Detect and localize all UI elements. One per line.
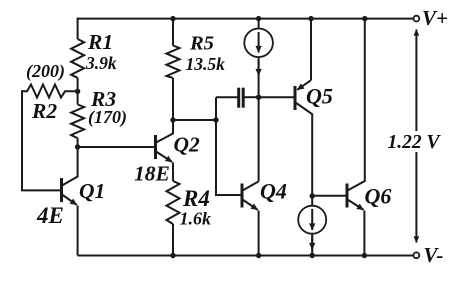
wire current source I1 top lead from rail	[258, 19, 260, 29]
capacitor C1	[239, 88, 244, 108]
transistor Q2	[156, 120, 174, 181]
node junction R3-Q1 collector-Q2 base	[75, 144, 80, 149]
node on Q4 base branch	[213, 117, 218, 122]
wire top supply rail	[78, 18, 414, 20]
terminal V+	[414, 16, 420, 22]
measurement arrow 1.22V lower	[415, 152, 417, 243]
svg-text:13.5k: 13.5k	[186, 54, 226, 74]
svg-text:R5: R5	[189, 33, 214, 55]
wire from Q2 collector node to compensation branch	[173, 119, 216, 121]
wire Q5 base from C1 node	[259, 96, 294, 98]
svg-text:1.6k: 1.6k	[180, 209, 212, 229]
resistor R5	[167, 46, 180, 79]
terminal V-	[414, 252, 420, 258]
svg-text:Q4: Q4	[260, 179, 287, 204]
svg-text:R1: R1	[87, 30, 113, 54]
svg-text:(170): (170)	[88, 107, 127, 128]
svg-text:Q6: Q6	[365, 184, 392, 209]
wire R5 top lead from rail	[172, 19, 174, 46]
wire Q2 base from R3 node	[78, 146, 154, 148]
svg-text:(200): (200)	[26, 61, 65, 82]
wire capacitor left lead	[216, 96, 238, 98]
svg-text:V-: V-	[424, 243, 444, 267]
current source I1	[244, 29, 273, 58]
resistor R2	[22, 85, 78, 98]
wire Q4 collector	[258, 97, 260, 181]
transistor Q5 (PNP)	[295, 19, 312, 196]
wire bottom supply rail	[78, 255, 414, 257]
node Q5 collector-Q6 base-I2 junction	[310, 193, 315, 198]
resistor R4	[167, 181, 180, 224]
wire compensation branch down to Q4 base	[216, 97, 241, 195]
transistor Q6	[347, 19, 365, 256]
resistor R1	[71, 39, 84, 78]
node I2 on bottom rail	[310, 253, 315, 258]
svg-text:R2: R2	[31, 99, 57, 123]
node junction R1-R2-R3	[75, 89, 80, 94]
wire capacitor right lead to Q4 collector node	[244, 96, 258, 98]
transistor Q4	[242, 181, 259, 255]
svg-text:3.9k: 3.9k	[85, 53, 117, 73]
resistor R3	[71, 105, 84, 139]
wire R1 bottom lead	[77, 78, 79, 92]
wire left feedback from R2 down to Q1 base	[22, 90, 60, 190]
wire I1 output with current arrow	[258, 57, 260, 97]
node Q4 collector-C1-Q5 base junction	[256, 95, 261, 100]
svg-text:Q5: Q5	[306, 84, 333, 109]
wire R5 bottom lead to Q2 collector node	[172, 78, 174, 120]
wire Q6 base from Q5 collector	[312, 195, 345, 197]
wire R1 top lead from rail	[77, 18, 79, 39]
svg-text:Q2: Q2	[174, 133, 201, 157]
svg-text:R4: R4	[182, 186, 210, 211]
node Q6 collector on top rail	[362, 16, 367, 21]
svg-text:Q1: Q1	[79, 179, 105, 203]
node R5 on top rail	[170, 16, 175, 21]
svg-text:18E: 18E	[134, 162, 170, 186]
node I1 on top rail	[256, 16, 261, 21]
wire R3 bottom lead	[77, 138, 79, 147]
node R4 on bottom rail	[170, 253, 175, 258]
wire R4 bottom lead	[172, 224, 174, 256]
wire R3 top lead	[77, 91, 79, 104]
transistor Q1	[62, 147, 78, 256]
svg-text:4E: 4E	[36, 203, 64, 228]
svg-text:1.22 V: 1.22 V	[388, 132, 442, 153]
measurement arrow 1.22V upper	[415, 30, 417, 132]
node R5-Q2 collector junction	[170, 117, 175, 122]
svg-text:V+: V+	[422, 6, 448, 30]
node Q5 emitter on top rail	[308, 16, 313, 21]
node Q4 emitter on bottom rail	[256, 253, 261, 258]
node Q6 emitter on bottom rail	[362, 253, 367, 258]
current source I2	[298, 196, 326, 256]
